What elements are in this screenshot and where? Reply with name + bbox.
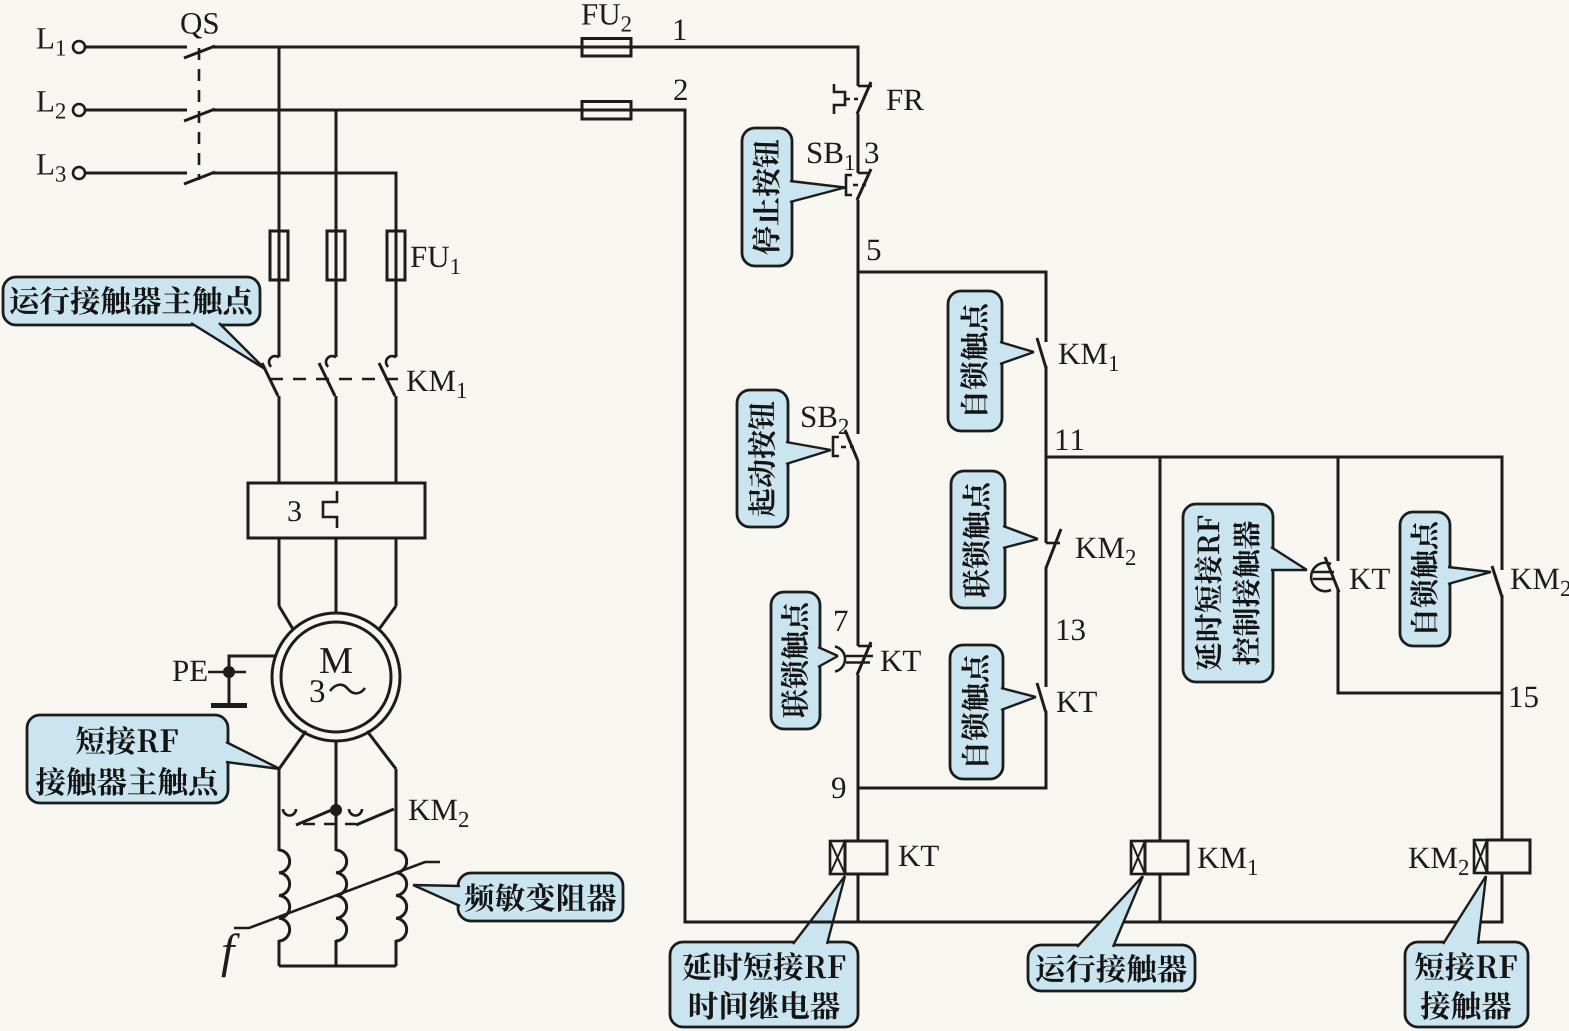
wire SB2 to node7 (857, 461, 860, 646)
callout 自锁触点KM1 (948, 291, 1034, 431)
motor label 3~ (311, 680, 365, 702)
PE wire to motor (229, 656, 276, 677)
node 11 label (1057, 430, 1083, 451)
thermal relay FR box (248, 483, 425, 538)
ground bar (211, 703, 247, 708)
motor label M (320, 648, 352, 673)
contactor KM1 main pole x=336 (319, 356, 336, 483)
wire FRbox to motor 2 (335, 538, 338, 614)
contact KT self-lock (1037, 683, 1046, 788)
contactor KM1 main linkage (270, 378, 404, 381)
FR box heater symbol (323, 491, 337, 528)
wire tap L1 down (278, 47, 281, 231)
switch QS linkage (198, 48, 201, 180)
label KT coil (899, 846, 939, 866)
label KT delayed (1350, 569, 1390, 589)
PE junction dot (224, 667, 235, 678)
wire FR to SB1 (857, 114, 860, 173)
fuse FU2-2 (582, 102, 631, 120)
wire SB1 to node5 (857, 200, 860, 274)
fuse FU2 label (582, 4, 631, 31)
label FR (887, 90, 924, 110)
contactor KM1 coil (1131, 841, 1188, 874)
label KM2 interlock (1076, 538, 1135, 565)
callout 联锁触点KM2 (951, 471, 1038, 608)
terminal L1 (73, 41, 85, 53)
contact KT delayed NO (1311, 557, 1339, 695)
relay KT coil (830, 841, 887, 874)
wire node11 down (1045, 457, 1048, 543)
label KM1 selflock (1059, 344, 1118, 371)
wire motor out 3 (367, 731, 396, 966)
callout 运行接触器 (1028, 876, 1195, 991)
wire KM1 coil branch (1159, 457, 1162, 841)
label KT (881, 651, 921, 671)
wire node1 (631, 46, 860, 49)
wire node1 down (857, 47, 860, 86)
PE wire down (228, 672, 231, 703)
button SB2 contact (833, 430, 858, 461)
switch QS blade L2 (184, 109, 215, 121)
label KM1 main (407, 371, 466, 398)
wire KT to node9 (857, 675, 860, 790)
fuse FU2-1 (582, 39, 631, 57)
contact KM2 interlock NC (1046, 529, 1061, 687)
wire branch5 down (1045, 272, 1048, 342)
FR box label 3 (288, 501, 300, 521)
label QS (181, 13, 217, 39)
wire node2 (631, 109, 687, 112)
label KM2 bridge (409, 800, 468, 827)
callout 运行接触器主触点 (3, 277, 265, 369)
fuse FU1-1 (270, 231, 288, 280)
callout 短接RF接触器 (1405, 876, 1528, 1027)
callout 延时短接RF控制接触器 (1183, 504, 1307, 682)
wire node5 branch (858, 271, 1048, 274)
wire L2 QS to FU2 (213, 109, 582, 112)
wire node15 (1338, 692, 1502, 695)
rheostat RF coil x=396 (396, 850, 407, 941)
wire motor out 2 (335, 741, 338, 966)
motor M inner circle (281, 622, 391, 732)
PE wire (208, 671, 246, 674)
label L1 (37, 28, 65, 55)
wire L1 QS to FU2 (213, 46, 582, 49)
button SB1 contact (846, 169, 871, 200)
wire node11 branch (1046, 456, 1504, 459)
label L3 (37, 154, 66, 182)
node 5 label (868, 240, 881, 261)
label KM2 coil (1409, 848, 1468, 875)
wire node5 to SB2 (857, 272, 860, 434)
terminal L3 (73, 167, 85, 179)
label L2 (37, 91, 65, 118)
switch QS blade L1 (184, 46, 215, 58)
callout 自锁触点KT (950, 645, 1036, 779)
relay FR contact (834, 82, 872, 114)
wire bottom bus (685, 921, 1504, 924)
node 15 label (1511, 687, 1538, 708)
wire KT coil down (857, 874, 860, 922)
wire KT delayed branch (1337, 457, 1340, 561)
fuse FU1 label (411, 247, 460, 274)
switch QS blade L3 (184, 172, 215, 184)
wire L3 QS to tap (213, 172, 398, 175)
wire left rail (684, 110, 687, 924)
fuse FU1-2 (327, 231, 345, 280)
node 3 label (866, 143, 879, 164)
terminal L2 (73, 104, 85, 116)
wire L2 to QS (85, 109, 187, 112)
node 9 label (832, 778, 845, 799)
wire tap L2 down (335, 110, 338, 231)
wire tap L3 down (395, 172, 398, 232)
wire motor out 1 (279, 731, 306, 966)
wire fuse3 to KM1 (395, 280, 398, 357)
callout 短接RF接触器主触点 (27, 715, 280, 803)
fuse FU1-3 (387, 231, 405, 280)
junction dot (331, 805, 342, 816)
node 13 label (1058, 620, 1085, 641)
label SB2 (802, 407, 848, 435)
contactor KM2 bridge fixed 1 (283, 809, 296, 816)
contactor KM2 coil (1474, 840, 1530, 873)
callout 频敏变阻器 (413, 873, 623, 921)
rheostat RF coil x=279 (279, 850, 290, 941)
wire L1 to QS (85, 46, 187, 49)
contact KM1 self-lock (1037, 338, 1046, 459)
label KM1 coil (1198, 848, 1257, 875)
label f (222, 933, 240, 977)
wire KM2 coil down (1501, 873, 1504, 922)
contactor KM1 main pole x=279 (262, 356, 279, 483)
contact KM2 self-lock (1492, 566, 1502, 840)
label KM2 selflock (1511, 569, 1569, 596)
wire fuse1 to KM1 (278, 280, 281, 357)
callout 延时短接RF时间继电器 (670, 876, 858, 1027)
contactor KM2 bridge blade 1 (296, 809, 334, 825)
wire L3 to QS (85, 172, 187, 175)
rheostat variable arrow (234, 862, 440, 928)
callout 自锁触点KM2 (1400, 512, 1491, 646)
wire node9 to coil (857, 788, 860, 841)
label KT selflock (1057, 692, 1097, 712)
contactor KM2 bridge blade 2 (356, 809, 394, 825)
rheostat RF coil x=336 (336, 850, 347, 941)
contactor KM2 bridge fixed 2 (349, 809, 362, 816)
motor M outer circle (272, 613, 400, 741)
wire FRbox to motor 3 (379, 538, 397, 630)
wire KM2 branch down (1501, 457, 1504, 570)
callout 停止按钮 (742, 128, 845, 266)
wire fuse2 to KM1 (335, 280, 338, 357)
node 2 label (674, 80, 686, 101)
callout 联锁触点KT (771, 592, 838, 729)
node 7 label (835, 611, 848, 631)
label PE (173, 661, 207, 681)
label SB1 (808, 143, 854, 171)
callout 起动按钮 (737, 390, 831, 527)
wire rheostat star bus (279, 965, 396, 968)
node 1 label (675, 20, 686, 41)
relay KT delayed NC contact (835, 642, 873, 675)
wire KM1 coil down (1159, 874, 1162, 922)
contactor KM1 main pole x=396 (379, 356, 396, 483)
wire node9 branch (858, 787, 1048, 790)
wire FRbox to motor 1 (279, 538, 294, 630)
contactor KM2 bridge linkage (303, 823, 356, 826)
